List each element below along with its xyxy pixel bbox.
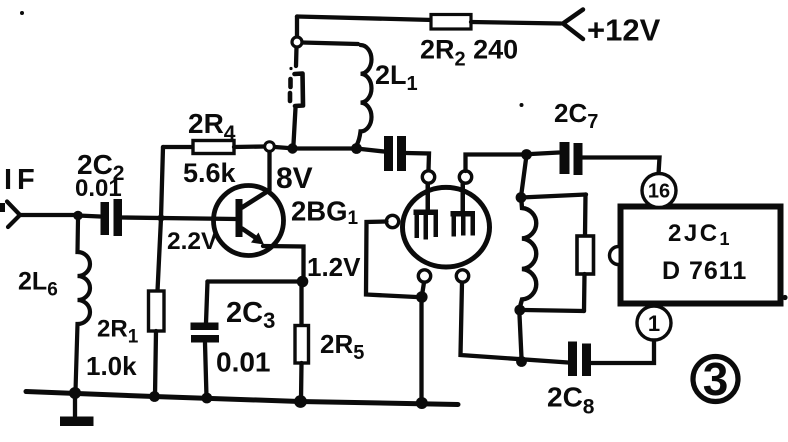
node: ground rail at SAW loop <box>416 397 428 409</box>
capacitor C (collector to SAW) plates <box>384 136 393 171</box>
svg-text:1: 1 <box>648 311 660 336</box>
node: input junction <box>73 211 83 221</box>
wire base line 2C2 to transistor <box>122 218 237 220</box>
speck right of IC <box>782 295 787 300</box>
IC U 2JC1 box <box>621 207 781 304</box>
node: 2C8 line junction <box>516 356 527 367</box>
SAW right transducer comb <box>451 183 476 237</box>
speck left edge <box>0 203 5 212</box>
wire junction down to tank top <box>522 159 527 193</box>
wire junction to 2C2 <box>78 216 100 217</box>
wire tank bottom rail <box>524 310 584 311</box>
tuning-slug component (broken box) on 2L1 <box>295 74 304 107</box>
node: ground rail at 2C3 <box>201 393 212 404</box>
svg-text:5.6k: 5.6k <box>183 158 237 188</box>
SAW pin top-right <box>459 171 471 183</box>
ground rail <box>26 392 458 405</box>
svg-text:8V: 8V <box>276 162 313 195</box>
svg-text:1.2V: 1.2V <box>307 252 361 282</box>
node: collector line junction B <box>351 143 362 154</box>
svg-text:0.01: 0.01 <box>75 175 122 202</box>
wire tank right branch bottom lead <box>582 274 587 311</box>
SAW left transducer comb <box>414 183 439 240</box>
node: collector terminal (open) <box>265 142 275 152</box>
wire collector stem <box>267 152 271 190</box>
wire node to 2L1 top <box>302 43 358 45</box>
wire node to dashed component <box>294 47 299 66</box>
svg-text:IF: IF <box>4 164 40 196</box>
wire 2R4 left lead <box>163 145 193 149</box>
transistor emitter stroke <box>242 229 259 241</box>
node: tank bottom junction <box>514 305 525 316</box>
svg-text:0.01: 0.01 <box>216 347 271 378</box>
SAW pin top-left <box>422 171 434 183</box>
wire 2R2 to +12V <box>471 22 561 24</box>
wire tank right branch top lead <box>583 195 588 237</box>
node: ground rail at 2R5 <box>294 395 307 408</box>
wire IF input lead <box>20 213 78 217</box>
transistor collector stroke <box>242 191 268 208</box>
inductor 2L1 <box>357 45 372 146</box>
wire 2R1 to ground rail <box>155 331 156 396</box>
svg-text:D 7611: D 7611 <box>662 257 747 285</box>
wire cap to SAW top-left pin <box>406 153 429 170</box>
node: SAW ground loop junction <box>416 291 428 303</box>
svg-text:3: 3 <box>703 353 729 405</box>
transistor emitter arrowhead <box>251 233 264 245</box>
wire tank bottom to 2C8 line <box>520 315 522 358</box>
resistor 2R2 <box>431 15 471 30</box>
wire dashed component to collector node <box>294 108 296 144</box>
wire junction to 2C7 <box>531 153 559 155</box>
resistor 2R4 <box>193 141 234 154</box>
resistor 2R1 <box>149 291 165 331</box>
wire 2C3 top lead <box>206 282 208 324</box>
wire SAW left pin loop <box>366 222 416 298</box>
svg-text:2.2V: 2.2V <box>167 228 218 255</box>
resistor (tank damping) <box>577 236 594 274</box>
SAW pin left <box>386 215 398 227</box>
wire emitter node to 2C3 top <box>208 279 303 283</box>
svg-text:+12V: +12V <box>587 13 661 48</box>
capacitor 2C3 plates <box>191 323 219 331</box>
figure number 3 circle <box>693 357 738 402</box>
wire top supply rail <box>297 17 433 21</box>
SAW pin bottom-left <box>418 270 430 282</box>
transistor Q 2BG1 body circle <box>214 186 284 256</box>
node: top-right junction <box>521 149 532 160</box>
wire collector node run <box>275 147 384 152</box>
node: top-left terminal (open) <box>292 37 302 47</box>
wire 2C8 to pin 1 <box>591 340 654 363</box>
node: ground rail at 2R1 <box>149 391 160 402</box>
node: collector line junction A <box>287 143 297 153</box>
wire 2C3 bottom lead <box>205 343 207 397</box>
wire 2R5 to ground rail <box>299 363 304 400</box>
capacitor 2C8 plates <box>568 342 577 377</box>
node: ground rail at 2L6 <box>69 387 81 399</box>
ground symbol <box>73 394 77 416</box>
wire top-left drop to node <box>295 17 299 38</box>
capacitor 2C7 plates <box>560 142 570 174</box>
inductor (tank coil) <box>521 202 537 305</box>
+12V terminal arrow <box>563 10 583 40</box>
wire emitter exit run <box>263 246 304 278</box>
wire emitter to 2R5 <box>299 284 303 326</box>
transistor base bar <box>236 199 243 237</box>
wire SAW bottom-left pin stem <box>423 283 425 293</box>
SAW pin bottom-right <box>456 270 468 282</box>
speck top-left <box>20 11 24 15</box>
wire tank top rail <box>521 195 586 198</box>
inductor 2L6 <box>76 219 91 391</box>
pin 16 circle <box>642 174 676 208</box>
capacitor 2C2 plates <box>101 202 110 235</box>
resistor 2R5 <box>295 326 309 364</box>
wire SAW top-right pin to junction <box>466 155 522 172</box>
SAW filter body circle <box>403 187 490 267</box>
wire bias divider vertical <box>158 147 164 291</box>
node: tank top junction <box>516 192 527 203</box>
wire 2C7 to pin 16 <box>583 158 660 175</box>
pin 1 circle <box>637 306 671 340</box>
node: emitter junction <box>297 276 309 288</box>
wire loop junction to ground rail <box>419 302 423 401</box>
IF input arrow <box>7 202 20 228</box>
wire SAW bottom-right pin to 2C8 <box>461 283 569 363</box>
wire 2R4 to collector node <box>234 144 264 149</box>
svg-text:16: 16 <box>648 181 670 203</box>
node: base bias crossing <box>157 214 164 221</box>
svg-text:1.0k: 1.0k <box>86 351 137 381</box>
IC notch <box>610 247 619 265</box>
speck near 2C7 <box>520 103 524 107</box>
